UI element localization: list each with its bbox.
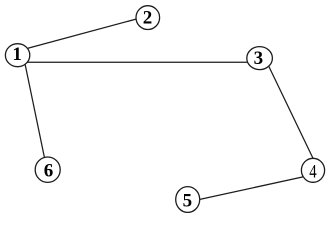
wire edge 1-2 [20,18,142,51]
svg-text:5: 5 [183,190,193,211]
node 1 [5,44,29,67]
node 5 [176,187,200,213]
node 2 [136,6,160,30]
wire edge 3-4 [265,59,319,171]
node 4 [301,158,324,182]
node 6 [35,157,60,182]
svg-text:2: 2 [143,8,153,29]
svg-text:4: 4 [309,162,317,183]
wire edge 4-5 [193,175,311,201]
svg-text:1: 1 [12,44,22,65]
wire edge 1-3 [24,61,254,63]
svg-text:3: 3 [254,48,264,69]
svg-text:6: 6 [44,161,54,182]
wire edge 1-6 [23,56,46,168]
node 3 [247,47,273,70]
